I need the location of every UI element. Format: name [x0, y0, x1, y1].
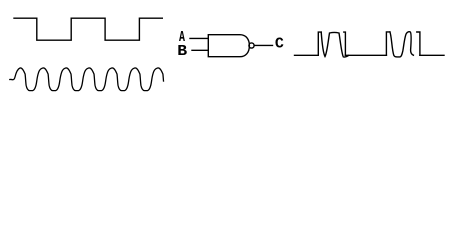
wire C output [254, 44, 272, 46]
wire: output baseline right segment [420, 54, 444, 56]
output burst 1 envelope rising edge and top stub [318, 32, 321, 55]
output burst 2 envelope rising edge and top stub [386, 32, 390, 55]
output burst 2 gated sine: wide dip, arch, cut descent [390, 32, 414, 57]
wire A [190, 37, 208, 39]
sine wave input B [10, 68, 164, 91]
wire: output baseline left segment [295, 54, 319, 56]
square wave input A [14, 18, 162, 40]
output burst 1 gated sine: dip 1, arch, dip 2 with undershoot hook [321, 32, 348, 57]
output burst 1 falling edge [344, 32, 346, 55]
svg-text:B: B [177, 43, 187, 60]
wire: baseline between bursts [345, 54, 386, 56]
wire B [192, 49, 208, 51]
svg-text:C: C [275, 36, 284, 53]
output burst 2 falling edge [417, 32, 420, 55]
nand gate U1 body [208, 35, 249, 57]
nand gate U1 inversion bubble [249, 43, 254, 48]
